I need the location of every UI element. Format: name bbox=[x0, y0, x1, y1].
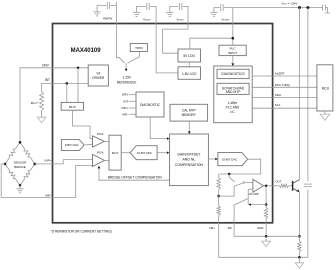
svg-text:INPUT: INPUT bbox=[228, 51, 237, 55]
wire stub INT bbox=[129, 100, 136, 102]
block PLC INPUT bbox=[219, 45, 246, 55]
svg-text:ALERT: ALERT bbox=[275, 72, 285, 76]
block MUX2 bbox=[109, 135, 121, 170]
wire CAL MTP to compensation bbox=[188, 121, 190, 131]
wire VDDHV to 5V LDO top bbox=[190, 38, 233, 49]
svg-text:V/I: V/I bbox=[96, 72, 100, 76]
block DIAGNOSTIC bbox=[136, 92, 164, 117]
node DRV junction bbox=[77, 67, 80, 70]
wire cap VDDLV bbox=[183, 5, 188, 7]
ground (REXT) bbox=[41, 111, 43, 118]
arrow to 1.25V reference bbox=[125, 63, 127, 68]
wire sense resistor bbox=[298, 236, 300, 241]
capacitor C5 (loop) bbox=[304, 184, 312, 187]
block SCRATCHPAD AND MTP bbox=[217, 83, 249, 94]
wire FB- pin bbox=[234, 223, 299, 237]
node bridge left bbox=[4, 163, 7, 166]
svg-text:AND NL: AND NL bbox=[182, 158, 195, 162]
svg-text:PGA: PGA bbox=[97, 132, 103, 136]
wire DAC8 to PGA1 bbox=[84, 143, 92, 146]
ground (C4) bbox=[210, 12, 217, 16]
switch S1 bbox=[228, 174, 230, 177]
wire DRV bbox=[20, 68, 88, 143]
op-amp PGA2 bbox=[93, 154, 105, 166]
node emitter-FB bbox=[298, 235, 301, 238]
block V/I DRIVER bbox=[88, 65, 108, 86]
capacitor C1 (REFIN) bbox=[107, 2, 109, 9]
wire PGA2 out bbox=[105, 159, 110, 161]
wire INP+ bbox=[35, 160, 93, 164]
sensor bridge resistor (top-right) bbox=[20, 142, 35, 164]
svg-text:PLC: PLC bbox=[230, 47, 237, 51]
node GND junction bbox=[265, 235, 268, 238]
svg-text:I²C: I²C bbox=[230, 110, 235, 114]
wire INP- bbox=[1, 164, 92, 198]
wire MUX2 to ADC bbox=[121, 152, 130, 154]
svg-text:PGA: PGA bbox=[97, 151, 103, 155]
wire cap branch bbox=[307, 8, 309, 182]
svg-text:PLC AND: PLC AND bbox=[226, 105, 240, 109]
wire VDDLV to 5V LDO bbox=[163, 24, 188, 54]
svg-text:SDA: SDA bbox=[275, 93, 281, 97]
ground (C3) bbox=[166, 13, 173, 17]
wire stub INP+ bbox=[129, 107, 136, 109]
wire INT bbox=[42, 83, 89, 91]
resistor R int lower bbox=[218, 196, 220, 206]
node switch tap bbox=[228, 173, 231, 176]
wire GND pin bbox=[265, 223, 267, 237]
block digital container bbox=[214, 66, 252, 123]
resistor R gnd bbox=[265, 205, 267, 208]
node feedback bbox=[265, 203, 268, 206]
svg-text:1.25V: 1.25V bbox=[123, 76, 132, 80]
wire VDD5V to 1.8V LDO bbox=[156, 24, 178, 73]
pin VDD5V wire bbox=[155, 6, 157, 23]
svg-text:INP+: INP+ bbox=[122, 106, 129, 110]
resistor R sense bbox=[298, 241, 301, 251]
wire DRV to MUX bbox=[77, 68, 79, 103]
wire INT to MUX bbox=[66, 83, 68, 102]
node INT junction bbox=[66, 82, 69, 85]
svg-text:MAX40109: MAX40109 bbox=[71, 48, 102, 54]
wire bridge offset compensation bbox=[99, 168, 170, 180]
svg-text:COMPENSATION: COMPENSATION bbox=[175, 163, 204, 167]
svg-text:REFIN: REFIN bbox=[103, 17, 112, 21]
wire stub INP- bbox=[129, 113, 136, 115]
pin REFIN wire bbox=[115, 2, 117, 24]
wire TRIM to ref bbox=[128, 52, 140, 64]
node bridge right bbox=[34, 163, 37, 166]
block MUX1 bbox=[61, 102, 83, 110]
wire to base bbox=[289, 185, 293, 187]
ground (C1) bbox=[94, 12, 101, 16]
wire 5V LDO to 1.8V LDO bbox=[188, 62, 190, 67]
svg-text:INP+: INP+ bbox=[45, 158, 52, 162]
block MCU bbox=[317, 65, 333, 111]
sensor bridge resistor (top-left) bbox=[5, 142, 20, 164]
wire PGA1 out bbox=[105, 140, 110, 142]
svg-text:DRV: DRV bbox=[42, 63, 50, 67]
op-amp PGA1 bbox=[93, 136, 105, 147]
ground (C2) bbox=[133, 13, 140, 17]
block GAIN/OFFSET AND NL COMPENSATION bbox=[170, 134, 209, 186]
wire emitter to FB bbox=[298, 192, 300, 236]
block 16-BIT DAC bbox=[218, 153, 248, 166]
wire SCL bbox=[252, 107, 317, 109]
node VDD-cap bbox=[306, 6, 309, 9]
svg-text:OUT: OUT bbox=[275, 180, 281, 184]
IC U1 MAX40109 chip outline bbox=[53, 24, 273, 223]
wire feedback to inverting input bbox=[250, 204, 266, 206]
ground (bridge) bbox=[19, 185, 21, 189]
svg-text:DRIVER: DRIVER bbox=[92, 76, 105, 80]
wire cap VDD5V bbox=[150, 5, 156, 7]
block DIAGNOSTICS bbox=[217, 69, 249, 78]
svg-text:5V LDO: 5V LDO bbox=[183, 54, 195, 58]
svg-text:16-BIT DAC: 16-BIT DAC bbox=[222, 157, 238, 161]
sensor bridge resistor (bottom-left) bbox=[5, 164, 20, 185]
resistor REXT bbox=[40, 92, 44, 111]
ground (GND pin) bbox=[265, 236, 267, 241]
wire FB- sense bbox=[234, 199, 248, 223]
capacitor C2 (VDD5V) bbox=[147, 3, 149, 10]
node op-amp out bbox=[265, 185, 268, 188]
wire DIO bbox=[252, 86, 317, 88]
block CAL MTP MEMORY bbox=[170, 104, 208, 121]
wire REFIN internal bbox=[116, 24, 124, 64]
svg-text:SCL: SCL bbox=[275, 103, 281, 107]
svg-text:MUX: MUX bbox=[112, 151, 118, 155]
wire tap to op-amp + bbox=[219, 183, 253, 197]
block 16-BIT ADC bbox=[130, 146, 157, 160]
wire MUX1 to PGA1 bbox=[72, 110, 92, 138]
wire cap REFIN bbox=[111, 5, 117, 7]
node bridge top bbox=[19, 141, 22, 144]
svg-text:GND: GND bbox=[257, 226, 263, 230]
svg-text:DIO (T-IRQ): DIO (T-IRQ) bbox=[275, 83, 290, 87]
wire DAC16 out loop bbox=[219, 159, 261, 174]
svg-text:TRIM: TRIM bbox=[135, 46, 143, 50]
block TRIM bbox=[130, 44, 147, 52]
pin VDDHV wire bbox=[232, 8, 234, 46]
op-amp U2 bbox=[253, 179, 264, 192]
svg-text:DRV: DRV bbox=[122, 93, 128, 97]
wire compensation to DAC16 bbox=[208, 158, 215, 160]
ground (MCU) bbox=[324, 111, 326, 114]
svg-text:INT: INT bbox=[123, 99, 128, 103]
svg-text:FB-: FB- bbox=[228, 226, 233, 230]
block 8-BIT DAC bbox=[61, 140, 84, 151]
wire DIAGNOSTIC to compensation bbox=[150, 117, 167, 139]
svg-text:1.8V LDO: 1.8V LDO bbox=[182, 72, 197, 76]
svg-text:OP-AMP: OP-AMP bbox=[249, 193, 259, 196]
svg-text:MEMORY: MEMORY bbox=[182, 113, 197, 117]
resistor R int upper bbox=[218, 174, 220, 178]
wire ADC to compensation bbox=[157, 152, 167, 154]
svg-text:8-BIT DAC: 8-BIT DAC bbox=[65, 143, 79, 147]
svg-text:BRIDGE OFFSET COMPENSATION: BRIDGE OFFSET COMPENSATION bbox=[108, 176, 163, 180]
svg-text:AND MTP: AND MTP bbox=[226, 90, 242, 94]
svg-text:MUX: MUX bbox=[69, 105, 76, 109]
wire OUT bbox=[273, 185, 280, 187]
svg-text:DIAGNOSTIC: DIAGNOSTIC bbox=[140, 103, 161, 107]
svg-text:1-Wire: 1-Wire bbox=[228, 101, 238, 105]
svg-text:REFERENCE: REFERENCE bbox=[117, 80, 137, 84]
svg-text:*(THERMISTOR OR CURRENT SETTIN: *(THERMISTOR OR CURRENT SETTING) bbox=[51, 229, 112, 233]
wire op-amp out bbox=[264, 185, 273, 187]
resistor R base bbox=[280, 184, 289, 187]
pin VDDLV wire bbox=[187, 6, 189, 23]
capacitor C4 (VDDHV) bbox=[221, 4, 223, 11]
wire SDA bbox=[252, 96, 317, 98]
ground (sense) bbox=[298, 257, 300, 263]
svg-text:DIAGNOSTICS: DIAGNOSTICS bbox=[221, 72, 245, 76]
svg-text:16-BIT ADC: 16-BIT ADC bbox=[137, 151, 152, 155]
wire VDD rail bbox=[214, 8, 220, 12]
block 5V LDO bbox=[178, 49, 201, 62]
wire FB+ pin bbox=[219, 223, 300, 257]
svg-text:FB+: FB+ bbox=[210, 226, 216, 230]
svg-text:GAIN/OFFSET: GAIN/OFFSET bbox=[177, 152, 201, 156]
svg-text:INP-: INP- bbox=[122, 112, 128, 116]
wire PLC INPUT to digital block bbox=[232, 56, 234, 64]
transistor Q1 bbox=[292, 181, 294, 191]
node FB+ bottom bbox=[298, 256, 301, 259]
node resistor tap bbox=[217, 195, 220, 198]
svg-text:INP-: INP- bbox=[45, 194, 51, 198]
svg-text:MCU: MCU bbox=[322, 86, 330, 90]
capacitor C3 (VDDLV) bbox=[179, 3, 181, 10]
svg-text:INT: INT bbox=[45, 78, 50, 82]
wire stub DRV bbox=[129, 94, 136, 96]
node VDD-collector bbox=[298, 6, 301, 9]
block 1.8V LDO bbox=[178, 67, 201, 80]
battery V1 (loop supply) bbox=[323, 5, 330, 13]
svg-text:BRIDGE: BRIDGE bbox=[14, 165, 26, 169]
node bridge bottom bbox=[19, 184, 22, 187]
wire collector to VDD bbox=[298, 8, 300, 180]
wire ALERT bbox=[252, 75, 317, 77]
sensor bridge resistor (bottom-right) bbox=[20, 164, 35, 185]
wire feedback bbox=[265, 186, 267, 205]
node VDDHV junction bbox=[232, 37, 235, 40]
svg-text:CAL MTP: CAL MTP bbox=[182, 108, 196, 112]
